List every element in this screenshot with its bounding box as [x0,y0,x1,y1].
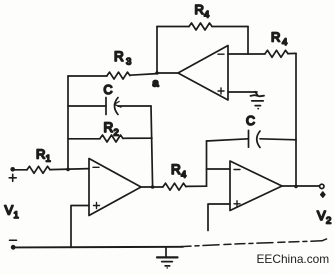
label V2 [317,208,331,227]
wire: bottom ground rail (dashed right part) [181,237,331,246]
wire: R2 right segment [123,137,152,139]
capacitor C (U2 feedback) [246,114,260,148]
wire: U2 output to V2 terminal [282,185,320,187]
node a [153,71,160,89]
wire: node a up to feedback top [156,27,158,74]
wire: U1 non-inverting input to ground rail [71,206,89,248]
wire: R3 left segment from inverting node rail [68,75,107,77]
terminal: V1 + input [9,167,16,181]
svg-text:2: 2 [326,216,331,227]
capacitor C (U1 feedback) [104,83,122,115]
svg-text:EEChina.com: EEChina.com [257,252,330,266]
resistor R3 [107,49,131,79]
svg-text:3: 3 [126,57,131,68]
wire: U2 non-inverting input down to ground rail [208,204,230,231]
junction: R1 / left rail [66,168,70,172]
wire: feedback down to U3 inverting input [247,27,249,55]
svg-text:R: R [104,120,114,135]
resistor R4 (right, U3 input) [265,30,288,58]
wire: right rail (V2 node vertical) [295,53,297,186]
svg-text:C: C [104,83,113,97]
svg-text:1: 1 [14,210,19,221]
svg-text:C: C [246,114,255,128]
op-amp U3 (top, pointing left) [178,46,228,101]
svg-text:a: a [153,78,160,90]
wire: R4 to U2 input junction [186,185,207,187]
wire: U3 inverting input [228,53,265,55]
svg-text:4: 4 [204,10,209,21]
wire: C2 left segment [207,139,249,141]
wire: C2 to right rail [260,139,296,140]
wire: R1 to U1 inverting input [50,169,89,170]
wire: mid vertical (U1 output node) [151,106,153,187]
wire: R4 to right rail corner [288,52,296,54]
resistor R4 (U2 input) [163,162,186,190]
wire: input to R1 [15,169,28,171]
op-amp U2 [230,161,282,211]
wire: node a to U3 apex [157,72,178,74]
ground (bottom rail) [157,247,178,268]
svg-text:R: R [36,147,45,162]
terminal: V2 + output [320,184,326,197]
svg-text:R: R [271,30,280,45]
wire: left rail (U1 inverting node) [67,76,69,170]
svg-text:R: R [171,162,181,177]
junction: right rail / output [294,185,298,189]
wire: C to mid vertical [118,105,151,107]
resistor R1 [27,147,51,174]
svg-text:V: V [5,203,14,218]
wire: R2 left segment [68,138,100,140]
svg-text:R: R [195,2,204,17]
svg-text:1: 1 [46,154,51,165]
svg-text:2: 2 [114,128,119,139]
wire: top feedback right segment [212,26,248,28]
resistor R4 (top feedback) [189,2,212,30]
wire: top feedback left segment [157,26,189,28]
svg-text:R: R [114,49,124,64]
svg-text:4: 4 [282,37,287,48]
svg-text:4: 4 [181,170,186,181]
wire: U2 inverting input [207,168,231,170]
wire: U3 non-inverting input [228,91,257,93]
resistor R2 [100,120,123,142]
wire: bottom ground rail (solid left part) [16,246,184,249]
wire: R3 to node a [130,74,157,76]
terminal: V1 - (ground side) [10,240,17,249]
wire: C left segment [68,105,106,107]
ground (U3 non-inverting input) [251,92,265,110]
wire: junction vertical up to C2 [206,141,208,186]
label V1 [5,203,19,222]
op-amp U1 [89,159,141,216]
wire: U1 output [141,186,163,188]
svg-text:V: V [317,208,326,223]
junction: U1 output / mid vertical [151,185,155,189]
